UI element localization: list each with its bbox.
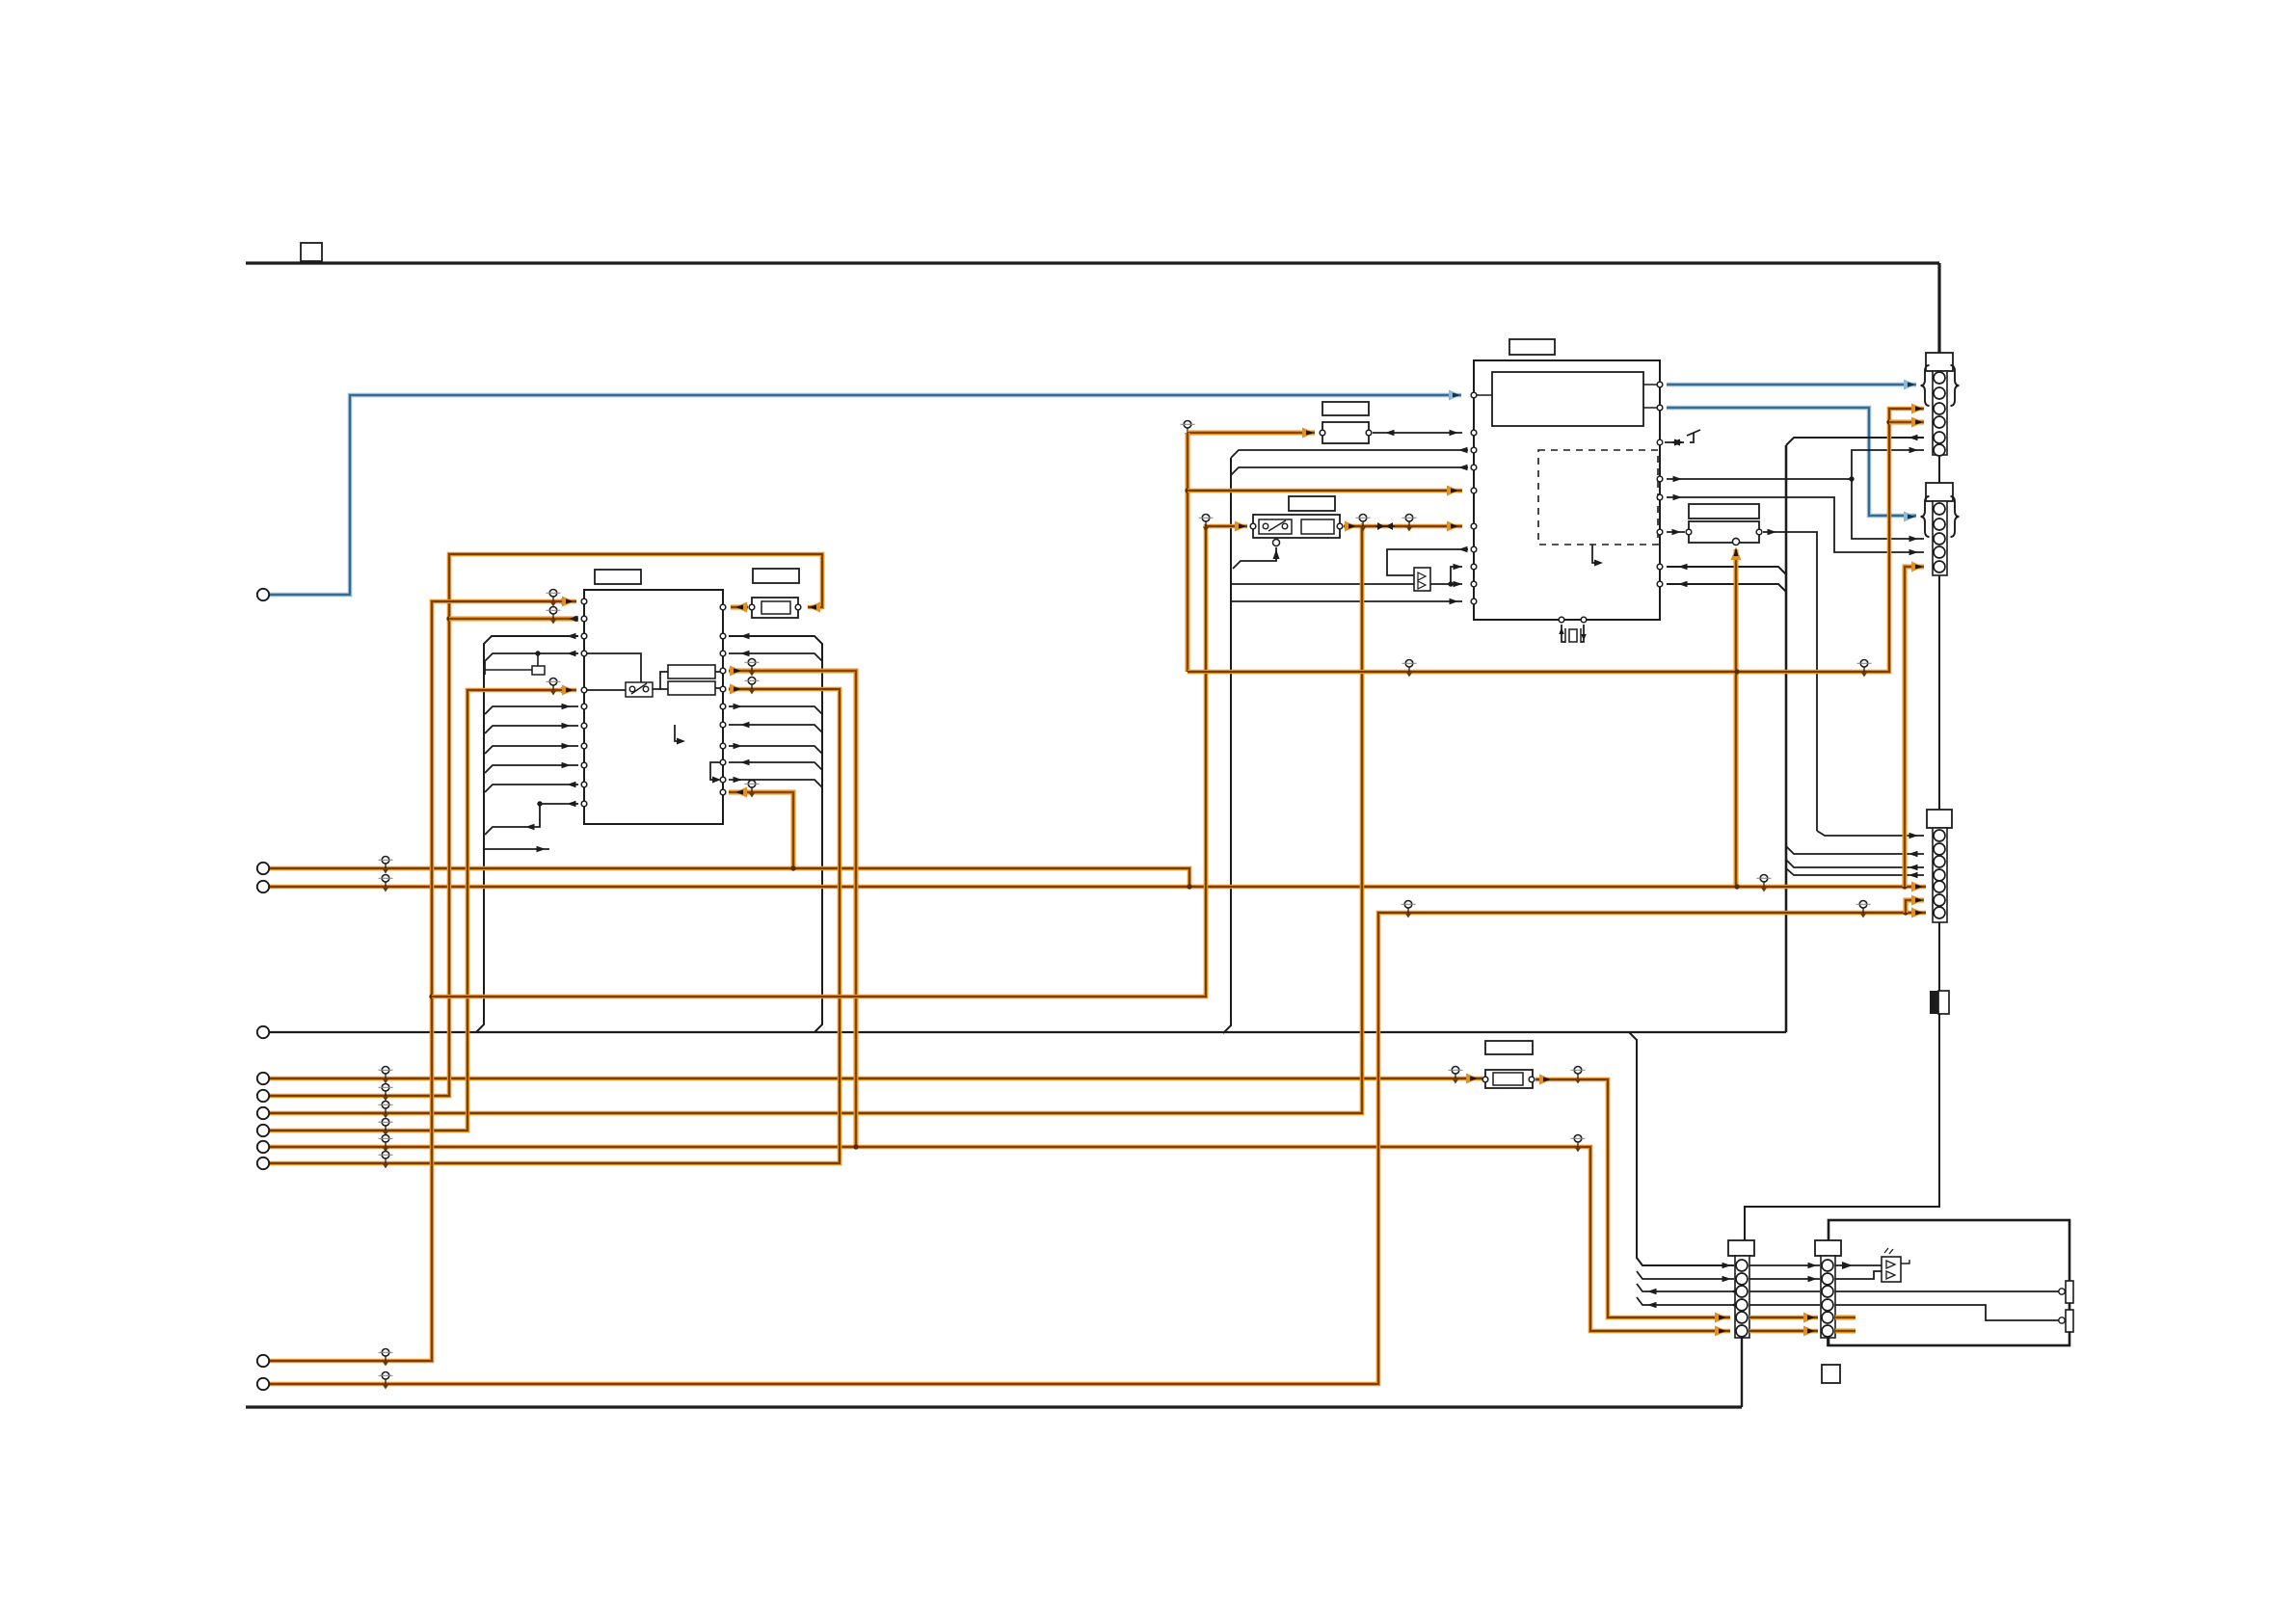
wire diode to U2 pins xyxy=(1430,583,1462,585)
camera unit box xyxy=(1829,1220,2069,1345)
terminal T4 xyxy=(257,1073,269,1084)
wire bus to diode line xyxy=(1231,583,1414,585)
label U2 xyxy=(1509,339,1555,355)
wire U1 pin696 branch xyxy=(729,671,856,1147)
antenna symbol at U2 pin xyxy=(1665,441,1684,443)
ECU block U2 xyxy=(1474,360,1660,620)
label U1b xyxy=(753,569,799,583)
pins U1 left xyxy=(581,599,587,604)
wire K1 to U2 pin449 xyxy=(1373,432,1462,434)
wires CN4-CN5 signal xyxy=(1749,1264,1820,1266)
bundle vertical right of U2 xyxy=(1785,445,1788,1032)
wire T10 up to U1 pin1 xyxy=(270,601,576,1361)
wire branch to U2 pin509 xyxy=(1188,489,1462,493)
wire CN2 to CN3 xyxy=(1938,575,1940,810)
connector CN1 pins xyxy=(1934,372,1945,384)
wire camera switch contact 2 xyxy=(1835,1305,2059,1320)
contact SW2 xyxy=(2066,1310,2073,1332)
terminal blue in xyxy=(257,589,269,600)
twisted pair brace CN2 xyxy=(1921,496,1930,537)
wire CN4 bottom to border xyxy=(1741,1338,1743,1407)
connector CN1 housing xyxy=(1926,353,1953,371)
wire CN5 bottom to unit box xyxy=(1827,1338,1829,1346)
terminal T2 power xyxy=(257,863,269,874)
wire T5 up to U1 pin2 net xyxy=(270,554,822,1096)
node marker square top-left xyxy=(301,243,322,261)
resistor R1 in U1 xyxy=(668,665,715,678)
switch SW3 assembly xyxy=(1289,496,1335,511)
wire T9 up to U1 pin715 xyxy=(270,689,840,1163)
wire T3 trunk to CN3 pin5 xyxy=(270,885,1926,890)
wire switch bottom to bus xyxy=(1233,547,1276,569)
orange feed M1 bottom xyxy=(1733,539,1740,545)
wire top border bus xyxy=(246,261,1939,264)
connector CN4 housing xyxy=(1728,1240,1754,1256)
terminal T3 power xyxy=(257,881,269,892)
label camera connector id xyxy=(1822,1365,1840,1383)
connector CN5 pins xyxy=(1822,1260,1833,1271)
wire T2 to junction xyxy=(270,868,1189,887)
wire CN1 pin5 to bundle xyxy=(1786,438,1924,445)
wire T6 to switch net xyxy=(270,526,1362,1113)
arrows U1 left pins xyxy=(562,599,572,605)
terminal T5 xyxy=(257,1090,269,1102)
wire U2 pin588 to bundle xyxy=(1667,567,1786,574)
terminal ground xyxy=(257,1026,269,1038)
fuse F2 small xyxy=(532,666,545,675)
wire T4 to resistor R3 xyxy=(270,1077,1482,1081)
bundle bus right of U1 xyxy=(729,636,822,1032)
pin restamp xyxy=(1934,372,1945,384)
terminal T11 xyxy=(257,1378,269,1390)
wire relay to resistors xyxy=(653,672,668,689)
connector CN5 housing xyxy=(1815,1240,1841,1256)
wire bottom border bus xyxy=(246,1405,1742,1408)
wire fuse to camera unit xyxy=(1745,1014,1939,1240)
wire U1 internal pin4 to relay xyxy=(584,653,641,682)
wire R1 to pin xyxy=(715,671,723,673)
bundle bus right of switch xyxy=(1223,458,1231,1033)
connector CN3 pins xyxy=(1934,830,1945,841)
connector CN2 housing xyxy=(1926,483,1953,501)
wire net y697 to CN1 pins3/4 xyxy=(1188,409,1924,672)
contact SW1 xyxy=(2066,1281,2073,1303)
terminal T6 xyxy=(257,1107,269,1119)
wire U2 pin570 to diode xyxy=(1387,549,1468,575)
wire T7 up to U1 pin5 xyxy=(270,690,576,1131)
wire branch up to CN2 pin5 xyxy=(1905,567,1924,887)
wire R4 to U1 pin xyxy=(731,605,748,610)
wire branch feed switch vertical xyxy=(432,526,1247,997)
IC block U1 (left control unit) xyxy=(584,590,723,824)
fuse F1 inline xyxy=(1930,991,1938,1014)
relay switch S1 inside U1 xyxy=(626,682,653,697)
hook symbol in U2 xyxy=(1592,545,1600,563)
wire U1 pin4 branch xyxy=(485,653,578,675)
wire T11 to CN3 pin6/7 xyxy=(270,913,1926,1384)
connector CN4 pins xyxy=(1736,1260,1748,1271)
twisted pair brace CN1 xyxy=(1921,365,1930,406)
wire R3 to camera CN4/CN5 pin5 xyxy=(1535,1079,1730,1317)
resistor R3 xyxy=(1485,1070,1533,1088)
wire U2 pin497 to CN1/CN2 xyxy=(1667,478,1852,480)
diode D2 box xyxy=(1414,568,1430,591)
arrows U1 right pins xyxy=(740,633,750,640)
wires bundle to CN3 pins 2-4 xyxy=(1786,846,1924,854)
wire bus to U2 pin624 xyxy=(1231,600,1462,602)
wire camera switch contact 1 xyxy=(1835,1290,2059,1292)
wires U1 left pins to bus xyxy=(485,706,578,714)
pins U2 left xyxy=(1471,430,1477,436)
crystal X1 below U2 xyxy=(1559,617,1564,623)
wire blue U2 out2 to CN2 xyxy=(1667,408,1916,516)
wire CN3 down to fuse xyxy=(1938,922,1940,991)
terminal T7 xyxy=(257,1125,269,1136)
wire U1 pin2 out xyxy=(449,617,578,622)
wire net down and right to CN1 xyxy=(1186,433,1190,672)
label R3 xyxy=(1485,1041,1533,1054)
wire T8 trunk to camera pin6 xyxy=(270,1147,1730,1331)
label K1 xyxy=(1322,402,1369,415)
wire bus stub xyxy=(485,848,549,850)
wire R2 to pin xyxy=(715,687,723,689)
hook symbol in U1 xyxy=(675,725,682,741)
connector CN3 housing xyxy=(1927,810,1952,828)
wire stubs inner box to pins xyxy=(1643,384,1660,386)
dashed box in U2 xyxy=(1538,450,1658,545)
wires U2 left pins to bus3 xyxy=(1231,450,1468,458)
wire U2 pin516 to CN2 xyxy=(1667,497,1924,552)
loop link pins U1 right xyxy=(710,762,723,780)
bundle bus left of U1 xyxy=(476,636,578,1032)
inner module box in U2 xyxy=(1492,372,1643,426)
wire to component K1 xyxy=(1188,431,1315,436)
wire ground feed fan to CN4 xyxy=(1629,1032,1734,1265)
component K1 xyxy=(1322,422,1369,443)
inline connector switch feed xyxy=(1205,521,1207,526)
inline connector start net xyxy=(1187,428,1188,433)
wire blue trunk to U2 xyxy=(270,395,1461,595)
wire CN1 to CN2 xyxy=(1938,455,1940,483)
component M1 at U2 pin552 xyxy=(1689,504,1759,519)
terminal T9 xyxy=(257,1157,269,1169)
wire main ground line xyxy=(270,1031,1786,1033)
terminal T10 xyxy=(257,1355,269,1367)
wire SW3 to U2 pin546 xyxy=(1344,524,1462,529)
wire border to connector CN1 xyxy=(1937,263,1940,353)
LED D1 in camera unit xyxy=(1835,1264,1882,1266)
connector CN2 pins xyxy=(1934,503,1945,515)
resistor R4 outside U1 xyxy=(752,598,798,618)
wire U2 pin606 to bundle xyxy=(1667,584,1786,592)
terminal T8 xyxy=(257,1141,269,1153)
wire blue U2 out1 to CN1 xyxy=(1667,383,1916,386)
wire U1 pin822 branch xyxy=(729,792,793,868)
pins U1 right xyxy=(720,604,726,610)
resistor R2 in U1 xyxy=(668,681,715,695)
label U1 xyxy=(595,570,641,584)
wire U1 internal pin5 to relay xyxy=(584,689,626,691)
